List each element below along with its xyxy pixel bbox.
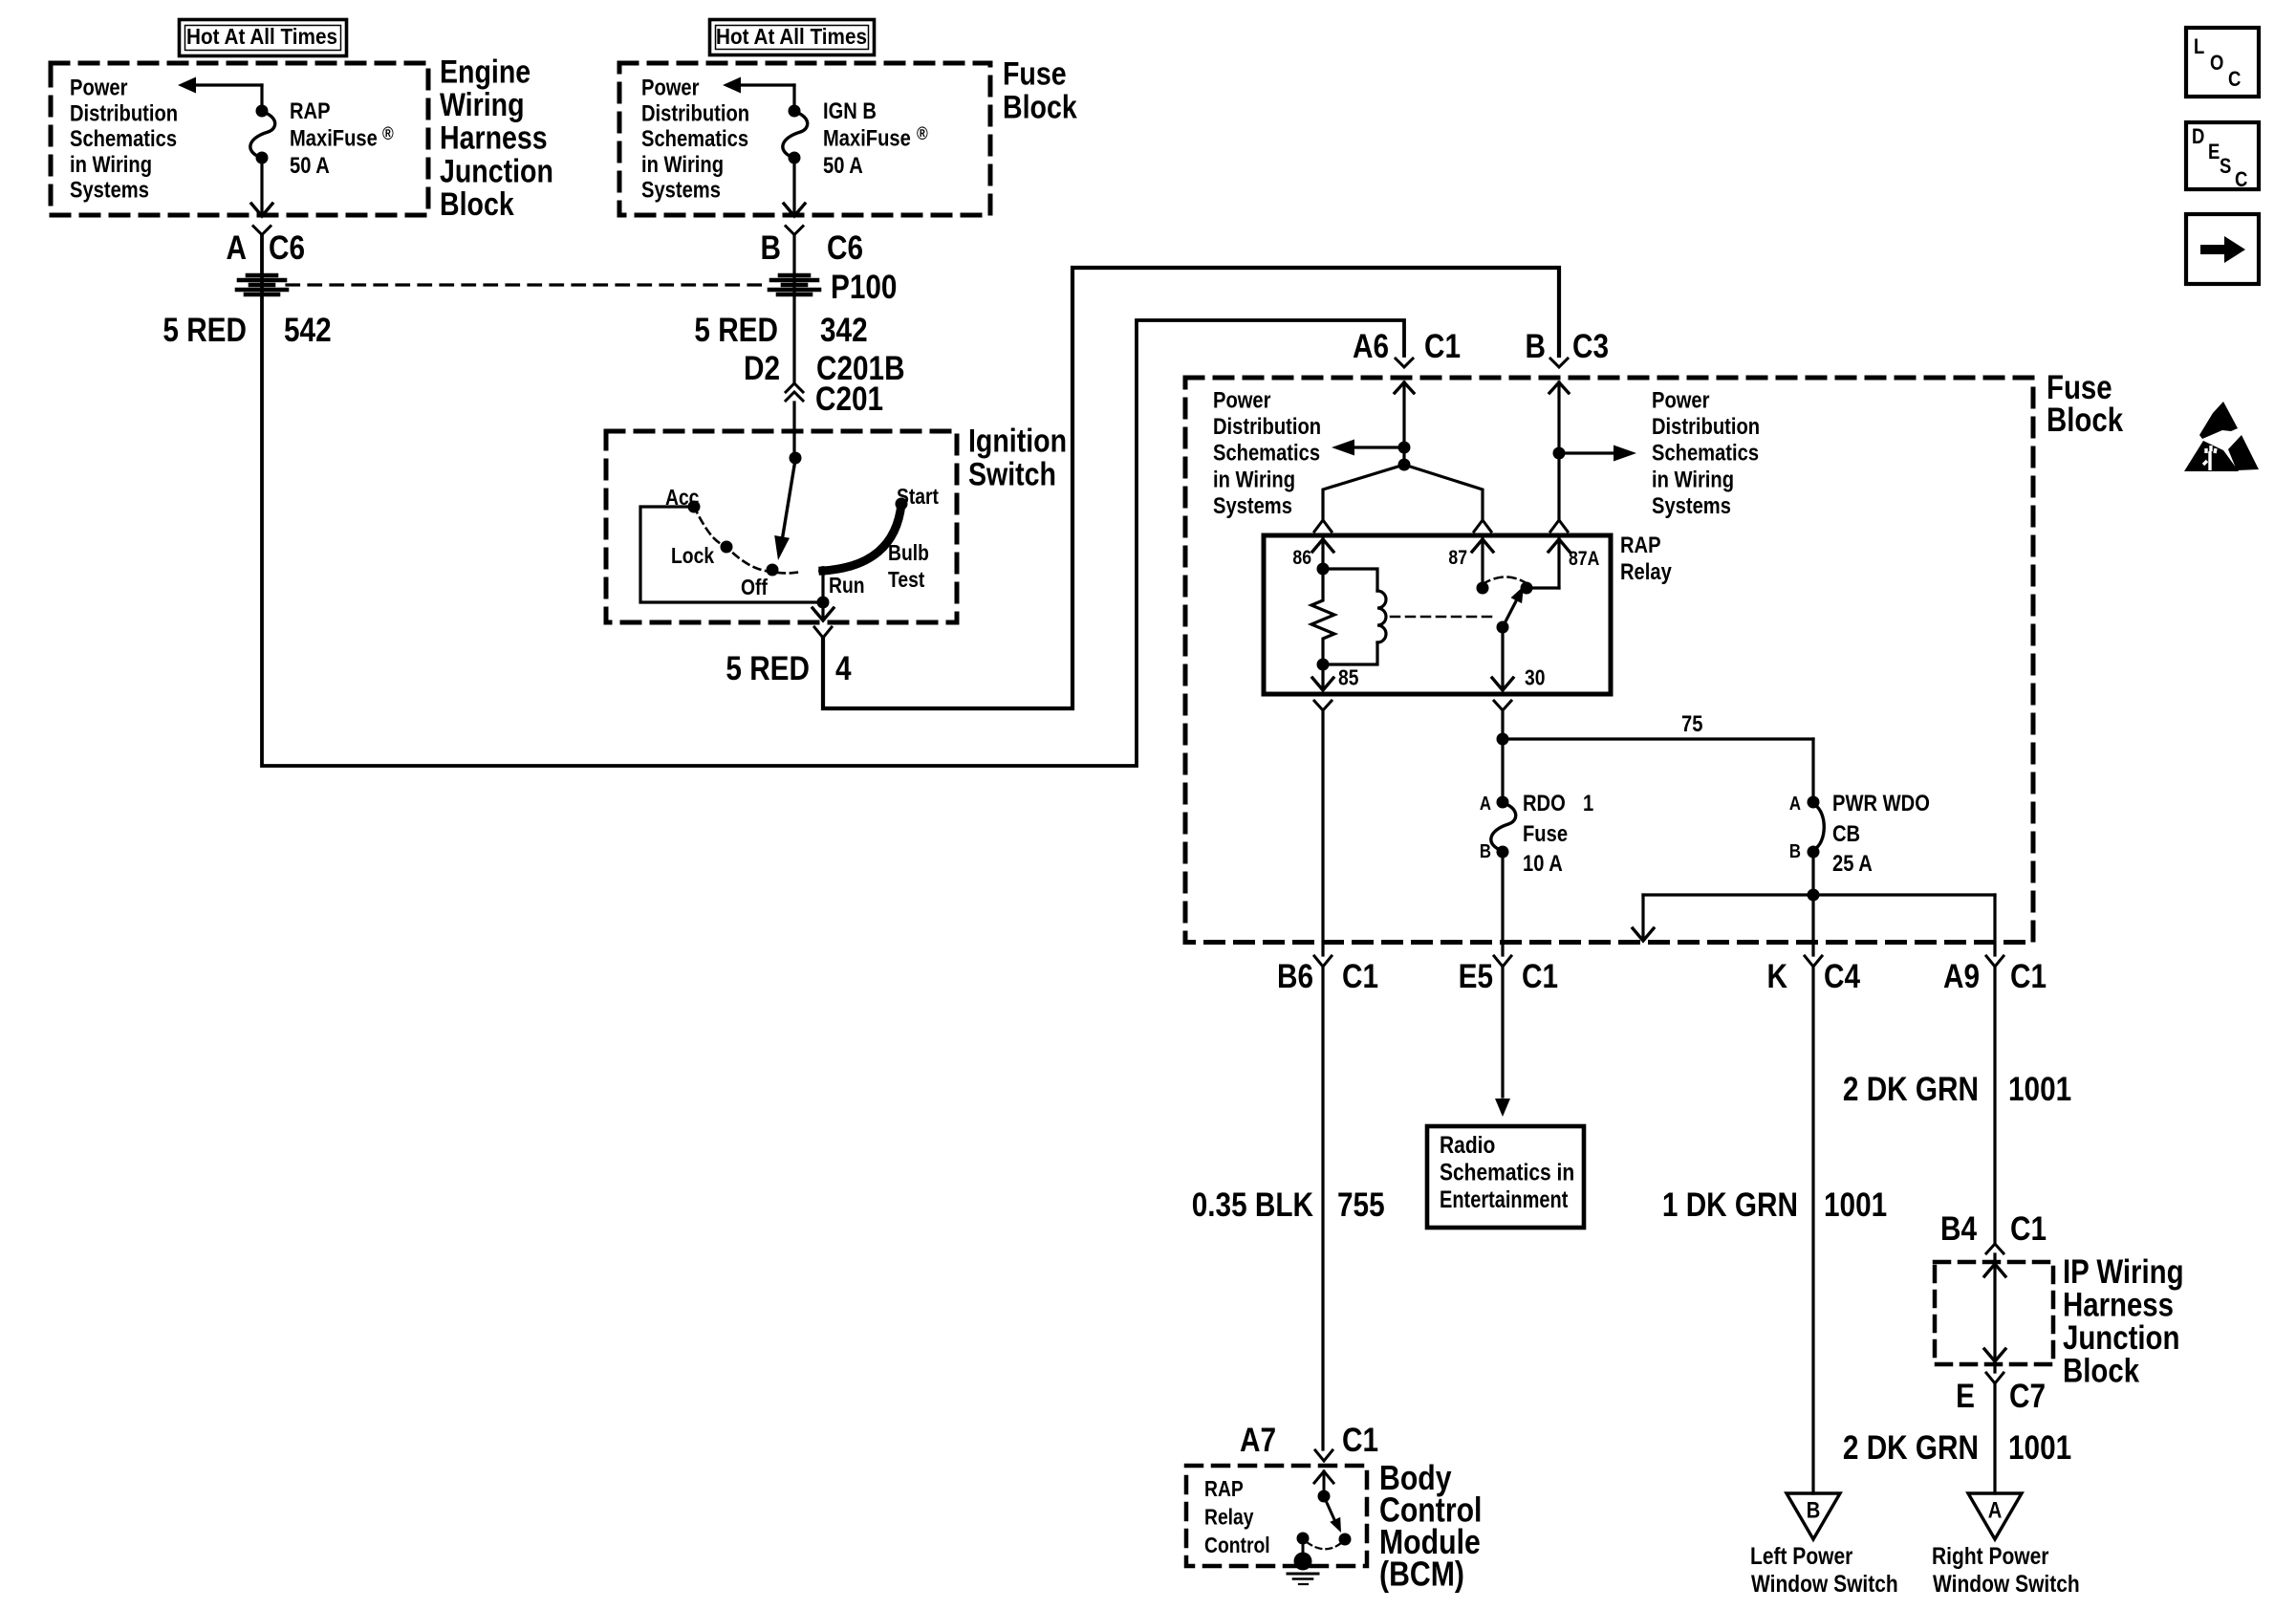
svg-text:Power: Power [641, 75, 700, 100]
svg-text:B: B [1480, 840, 1491, 862]
svg-text:86: 86 [1292, 547, 1311, 570]
svg-text:A6: A6 [1353, 328, 1389, 365]
svg-text:Hot At All Times: Hot At All Times [716, 24, 867, 49]
svg-text:87A: 87A [1569, 548, 1599, 571]
svg-text:MaxiFuse: MaxiFuse [290, 125, 378, 151]
svg-text:B: B [1526, 328, 1546, 365]
svg-text:L: L [2194, 36, 2204, 59]
svg-text:C: C [2228, 69, 2242, 92]
svg-text:Off: Off [741, 577, 769, 600]
svg-text:542: 542 [284, 312, 332, 349]
svg-text:C4: C4 [1824, 958, 1860, 995]
svg-text:C7: C7 [2009, 1378, 2046, 1415]
svg-text:Switch: Switch [968, 456, 1056, 492]
svg-text:1: 1 [1583, 790, 1593, 816]
svg-text:Power: Power [1213, 387, 1271, 413]
svg-text:Schematics: Schematics [641, 125, 748, 151]
svg-text:Systems: Systems [641, 177, 721, 203]
svg-text:D2: D2 [744, 350, 780, 387]
svg-text:1001: 1001 [1824, 1186, 1887, 1224]
svg-text:2 DK GRN: 2 DK GRN [1843, 1071, 1979, 1108]
svg-text:Schematics: Schematics [1652, 440, 1759, 466]
svg-text:E: E [1956, 1378, 1975, 1415]
svg-text:Bulb: Bulb [888, 542, 929, 566]
svg-text:Block: Block [440, 186, 514, 223]
svg-text:Window Switch: Window Switch [1751, 1570, 1898, 1597]
svg-text:CB: CB [1832, 820, 1860, 846]
svg-text:5 RED: 5 RED [694, 312, 778, 349]
svg-text:Block: Block [2063, 1352, 2139, 1389]
svg-text:A9: A9 [1943, 958, 1980, 995]
svg-text:Relay: Relay [1620, 558, 1672, 584]
svg-text:Systems: Systems [1652, 492, 1731, 518]
svg-text:30: 30 [1525, 666, 1545, 690]
svg-text:Power: Power [70, 75, 128, 100]
svg-text:C6: C6 [827, 229, 863, 267]
svg-text:C1: C1 [1342, 958, 1378, 995]
svg-text:C1: C1 [1424, 328, 1461, 365]
svg-text:in Wiring: in Wiring [70, 151, 152, 177]
svg-text:Harness: Harness [440, 120, 548, 156]
svg-text:Lock: Lock [671, 545, 714, 569]
svg-text:Schematics in: Schematics in [1440, 1159, 1574, 1186]
svg-text:B: B [1789, 840, 1801, 862]
svg-text:2 DK GRN: 2 DK GRN [1843, 1429, 1979, 1467]
svg-text:D: D [2192, 126, 2204, 149]
svg-text:B: B [1807, 1497, 1821, 1523]
svg-text:Distribution: Distribution [1213, 413, 1321, 439]
svg-text:342: 342 [820, 312, 868, 349]
svg-text:Junction: Junction [2063, 1319, 2179, 1357]
svg-text:E: E [2208, 141, 2220, 164]
svg-text:IGN B: IGN B [823, 98, 877, 123]
svg-text:0.35 BLK: 0.35 BLK [1192, 1186, 1314, 1224]
svg-text:Fuse: Fuse [1003, 55, 1067, 92]
svg-text:C201: C201 [815, 381, 883, 418]
svg-text:Radio: Radio [1440, 1131, 1495, 1158]
svg-text:Window Switch: Window Switch [1933, 1570, 2080, 1597]
svg-text:1001: 1001 [2008, 1071, 2071, 1108]
svg-text:A: A [1988, 1497, 2003, 1523]
svg-text:75: 75 [1681, 710, 1702, 736]
svg-text:C1: C1 [1342, 1422, 1378, 1459]
svg-text:in Wiring: in Wiring [1213, 467, 1295, 492]
svg-text:RDO: RDO [1523, 790, 1566, 816]
svg-text:10 A: 10 A [1523, 850, 1563, 876]
svg-text:A: A [1789, 793, 1801, 815]
svg-text:(BCM): (BCM) [1379, 1556, 1464, 1594]
svg-text:Hot At All Times: Hot At All Times [186, 24, 337, 49]
svg-text:Systems: Systems [1213, 492, 1292, 518]
svg-text:B: B [761, 229, 781, 267]
svg-text:RAP: RAP [290, 98, 331, 123]
svg-text:Left Power: Left Power [1750, 1542, 1852, 1569]
svg-text:K: K [1767, 958, 1788, 995]
svg-text:Power: Power [1652, 387, 1710, 413]
svg-text:A7: A7 [1240, 1422, 1276, 1459]
svg-text:Acc: Acc [665, 487, 700, 511]
svg-text:5 RED: 5 RED [162, 312, 247, 349]
svg-text:Ignition: Ignition [968, 423, 1067, 459]
svg-text:Test: Test [888, 569, 924, 593]
svg-text:O: O [2210, 53, 2223, 76]
svg-text:®: ® [917, 123, 928, 144]
svg-text:Right Power: Right Power [1932, 1542, 2048, 1569]
svg-text:25 A: 25 A [1832, 850, 1873, 876]
svg-text:®: ® [382, 123, 394, 144]
svg-text:Relay: Relay [1204, 1506, 1254, 1530]
svg-text:MaxiFuse: MaxiFuse [823, 125, 911, 151]
svg-text:Control: Control [1204, 1534, 1270, 1558]
svg-text:755: 755 [1337, 1186, 1385, 1224]
svg-text:RAP: RAP [1620, 532, 1661, 557]
svg-text:RAP: RAP [1204, 1478, 1244, 1502]
svg-text:87: 87 [1448, 547, 1467, 570]
svg-text:Schematics: Schematics [1213, 440, 1320, 466]
svg-text:50 A: 50 A [290, 152, 330, 178]
svg-text:in Wiring: in Wiring [641, 151, 724, 177]
svg-text:C1: C1 [2010, 1210, 2047, 1248]
svg-text:C1: C1 [2010, 958, 2047, 995]
svg-text:P100: P100 [831, 269, 897, 306]
svg-text:Fuse: Fuse [1523, 820, 1568, 846]
svg-text:C1: C1 [1522, 958, 1558, 995]
svg-text:C: C [2235, 169, 2248, 192]
svg-text:Engine: Engine [440, 54, 531, 90]
svg-text:85: 85 [1338, 666, 1359, 690]
svg-text:A: A [227, 229, 247, 267]
svg-text:A: A [1480, 793, 1491, 815]
svg-text:B6: B6 [1277, 958, 1313, 995]
svg-text:C6: C6 [269, 229, 305, 267]
svg-text:Distribution: Distribution [70, 100, 178, 126]
svg-text:S: S [2220, 156, 2231, 179]
svg-text:PWR WDO: PWR WDO [1832, 790, 1930, 816]
svg-text:50 A: 50 A [823, 152, 863, 178]
svg-text:Run: Run [829, 575, 865, 598]
svg-text:Schematics: Schematics [70, 125, 177, 151]
svg-text:5 RED: 5 RED [726, 650, 810, 687]
svg-text:Block: Block [1003, 89, 1077, 125]
svg-text:Wiring: Wiring [440, 87, 525, 123]
svg-text:in Wiring: in Wiring [1652, 467, 1734, 492]
svg-text:Systems: Systems [70, 177, 149, 203]
svg-text:C3: C3 [1572, 328, 1609, 365]
svg-text:Block: Block [2047, 402, 2123, 439]
svg-text:Start: Start [897, 486, 939, 510]
svg-text:1 DK GRN: 1 DK GRN [1662, 1186, 1798, 1224]
svg-text:Entertainment: Entertainment [1440, 1186, 1569, 1213]
svg-text:B4: B4 [1940, 1210, 1977, 1248]
svg-text:E5: E5 [1459, 958, 1493, 995]
svg-text:Distribution: Distribution [1652, 413, 1760, 439]
svg-text:Harness: Harness [2063, 1286, 2174, 1323]
svg-text:Junction: Junction [440, 153, 553, 189]
svg-text:Distribution: Distribution [641, 100, 749, 126]
svg-text:1001: 1001 [2008, 1429, 2071, 1467]
svg-text:IP Wiring: IP Wiring [2063, 1253, 2184, 1291]
svg-text:4: 4 [835, 650, 852, 687]
